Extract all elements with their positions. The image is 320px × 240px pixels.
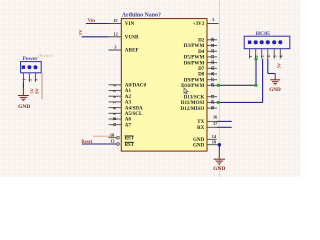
pin label VIN (125, 21, 135, 27)
pin label D11/MOSI (181, 100, 205, 106)
connector J2 Power designator (38, 53, 53, 58)
svg-text:GND: GND (269, 87, 281, 93)
pin 5 A1 (109, 90, 122, 92)
Power pin 2 (29, 73, 33, 82)
junction at pin 19 (218, 143, 221, 146)
svg-text:23: 23 (210, 55, 215, 59)
pin 9 A5/SCL (109, 113, 122, 115)
pin 4 A0/DAC0 (109, 85, 122, 87)
svg-text:2: 2 (29, 79, 33, 81)
junction dot at HC05 pin 2 (255, 58, 258, 61)
svg-text:3: 3 (35, 79, 39, 81)
IC U1 Arduino Nano component body (121, 19, 207, 152)
pin label A7 (125, 122, 132, 128)
pin label D7 (198, 66, 205, 72)
svg-text:7: 7 (113, 102, 117, 104)
svg-text:AREF: AREF (125, 48, 139, 54)
pin 11 A7 (109, 123, 122, 127)
pin 13 RST (with bubble) (117, 143, 120, 146)
svg-text:9V: 9V (35, 88, 40, 94)
svg-text:13: 13 (110, 139, 114, 144)
svg-text:29: 29 (210, 100, 215, 104)
HC05 pin 1 (249, 49, 253, 59)
pin label A3 (125, 100, 132, 106)
pin 23 D5/PWM (207, 55, 217, 59)
connector J2 Power title (23, 56, 39, 62)
Power pin 3 (35, 73, 39, 82)
pin 28 D10/PWM (207, 83, 217, 87)
pin label D10/PWM (181, 83, 204, 89)
wire Power pin 1 to ground (22, 82, 24, 89)
pin label D2 (198, 38, 205, 44)
pin 15 VIN (109, 23, 122, 25)
svg-text:26: 26 (210, 72, 215, 76)
svg-text:D12/MISO: D12/MISO (181, 106, 205, 112)
svg-text:1: 1 (249, 55, 253, 57)
ground symbol below Power (18, 89, 30, 111)
connector J1 HC05 title (256, 31, 270, 37)
pin 8 A4/SDA (109, 107, 122, 109)
pin number 15 (113, 18, 117, 23)
pin 31 D13/SCK (207, 95, 217, 99)
svg-text:RX: RX (197, 125, 205, 131)
pin label RST (second) (125, 142, 135, 148)
pin 19 GND (207, 144, 219, 146)
pin label D5/PWM (184, 55, 205, 61)
wire HC05 pin 4 to ground (268, 59, 275, 74)
pin number 3 (114, 45, 116, 50)
pin label D4 (198, 49, 205, 55)
ground symbol below U1 (213, 150, 225, 172)
pin 3 AREF (109, 49, 122, 51)
ground symbol below HC05 (269, 74, 281, 94)
connector J2 Power body (21, 62, 42, 73)
svg-text:24: 24 (210, 60, 215, 64)
svg-text:3: 3 (114, 45, 116, 50)
svg-text:RST: RST (125, 137, 135, 142)
svg-text:28: 28 (210, 83, 215, 87)
ERC marker line at pin 18 (93, 135, 115, 137)
HC05 pin 5 (274, 49, 278, 59)
sheet zone divider line (218, 0, 220, 177)
pin label A1 (125, 88, 132, 94)
svg-text:16: 16 (213, 115, 218, 120)
net label 5V at Power (rotated) (29, 88, 34, 94)
pin 16 TX (207, 120, 217, 122)
svg-text:5: 5 (113, 90, 117, 92)
svg-text:GND: GND (18, 104, 30, 110)
wire stub from TX (217, 120, 232, 122)
pin number 2 (212, 17, 214, 22)
pin 24 D6/PWM (207, 60, 217, 64)
pin label D9/PWM (184, 77, 205, 83)
pin 18 RST (with bubble) (109, 136, 120, 139)
pin label D8 (198, 72, 205, 78)
svg-text:RST: RST (125, 143, 135, 148)
pin label D3/PWM (184, 43, 205, 49)
net label 9V at Power (rotated) (35, 88, 40, 94)
pin label A6 (125, 117, 132, 123)
svg-text:6: 6 (113, 96, 117, 98)
pin label GND (pin 19) (193, 142, 205, 148)
pin 30 D12/MISO (207, 106, 217, 110)
svg-text:11: 11 (113, 123, 117, 127)
svg-text:4: 4 (267, 55, 271, 57)
wire net Vin to pin 15 (86, 23, 109, 25)
pin label RST (first) (125, 136, 135, 142)
svg-text:9: 9 (113, 113, 117, 115)
pin label TX (197, 119, 204, 125)
Power pin 1 (23, 73, 27, 82)
svg-text:18: 18 (110, 133, 114, 138)
svg-text:5: 5 (274, 55, 278, 57)
svg-text:5V: 5V (276, 62, 281, 68)
wire net 5V to pin 12 (82, 36, 109, 38)
svg-text:14: 14 (212, 134, 217, 139)
pin 2 +3V3 (207, 23, 219, 25)
pin label D6/PWM (184, 60, 205, 66)
pin label +3V3 (193, 21, 205, 27)
wire stub from RX (217, 126, 232, 128)
svg-text:Arduino Nano?: Arduino Nano? (122, 13, 161, 19)
wire D11/MOSI to HC05 pin 3 (217, 59, 263, 103)
svg-text:+3V3: +3V3 (193, 21, 205, 27)
svg-text:15: 15 (113, 18, 117, 23)
HC05 pin 2 (255, 49, 259, 59)
svg-text:(Power?): (Power?) (38, 53, 53, 58)
wire pin 19 to ground (218, 145, 220, 150)
svg-text:22: 22 (210, 49, 215, 53)
svg-text:A7: A7 (125, 122, 132, 128)
pin number 17 (213, 121, 218, 126)
net label 5V (rotated) (78, 29, 83, 35)
mouse cursor (184, 88, 188, 94)
pin 20 D2 (207, 38, 217, 42)
pin number 18 (110, 133, 114, 138)
pin 22 D4 (207, 49, 217, 53)
pin label A4/SDA (125, 105, 143, 111)
pin 25 D7 (207, 66, 217, 70)
HC05 pin 3 (261, 49, 265, 59)
junction dot at D10 pin end (217, 84, 220, 87)
svg-text:19: 19 (212, 140, 216, 145)
pin label RX (197, 125, 205, 131)
HC05 pin 6 (280, 49, 284, 59)
pin 14 GND (207, 138, 217, 140)
pin number 13 (110, 139, 114, 144)
svg-text:12: 12 (114, 31, 118, 36)
pin number 19 (212, 140, 216, 145)
svg-text:8: 8 (113, 107, 117, 109)
pin 10 A6 (109, 117, 122, 121)
pin 6 A2 (109, 96, 122, 98)
svg-text:31: 31 (210, 95, 215, 99)
svg-text:1: 1 (23, 79, 27, 81)
pin label D13/SCK (184, 94, 205, 100)
pin label D12/MISO (181, 106, 205, 112)
pin 27 D9/PWM (207, 78, 217, 82)
pin label A2 (125, 94, 132, 100)
wire net Reset to pin 13 (82, 143, 117, 145)
pin label GND (pin 14) (193, 137, 205, 143)
svg-text:10: 10 (113, 117, 117, 121)
svg-text:25: 25 (210, 66, 215, 70)
svg-text:27: 27 (210, 78, 215, 82)
svg-text:3: 3 (261, 55, 265, 57)
wire D10/PWM to HC05 pin 2 (217, 59, 256, 86)
svg-text:2: 2 (255, 55, 259, 57)
junction dot at D11 pin end (217, 101, 220, 104)
pin 17 RX (207, 126, 217, 128)
component designator label Arduino Nano? (122, 13, 161, 19)
pin 29 D11/MOSI (207, 100, 217, 104)
pin 7 A3 (109, 102, 122, 104)
connector J1 HC05 body (244, 36, 290, 49)
svg-text:VUSB: VUSB (125, 35, 139, 41)
svg-text:GND: GND (213, 166, 225, 172)
pin label A0/DAC0 (125, 83, 147, 89)
pin 26 D8 (207, 72, 217, 76)
svg-text:21: 21 (210, 43, 215, 47)
pin label AREF (125, 48, 139, 54)
pin number 16 (213, 115, 218, 120)
svg-text:20: 20 (210, 38, 215, 42)
pin number 14 (212, 134, 217, 139)
junction dot at wire corner D10 (255, 84, 258, 87)
net label Reset (81, 140, 92, 145)
net label Vin (88, 19, 96, 24)
svg-text:4: 4 (113, 85, 117, 87)
pin number 12 (114, 31, 118, 36)
svg-text:6: 6 (280, 55, 284, 57)
HC05 pin 4 (267, 49, 271, 59)
pin label A5/SCL (125, 111, 143, 117)
svg-text:5V: 5V (78, 29, 83, 35)
wire stub right of Power (41, 73, 43, 99)
pin label VUSB (125, 35, 139, 41)
pin 21 D3/PWM (207, 43, 217, 47)
svg-text:2: 2 (212, 17, 214, 22)
svg-text:VIN: VIN (125, 21, 135, 27)
svg-text:30: 30 (210, 106, 215, 110)
svg-text:GND: GND (193, 142, 205, 148)
pin 12 VUSB (109, 36, 122, 38)
net label 5V at HC05 (rotated) (276, 62, 281, 68)
